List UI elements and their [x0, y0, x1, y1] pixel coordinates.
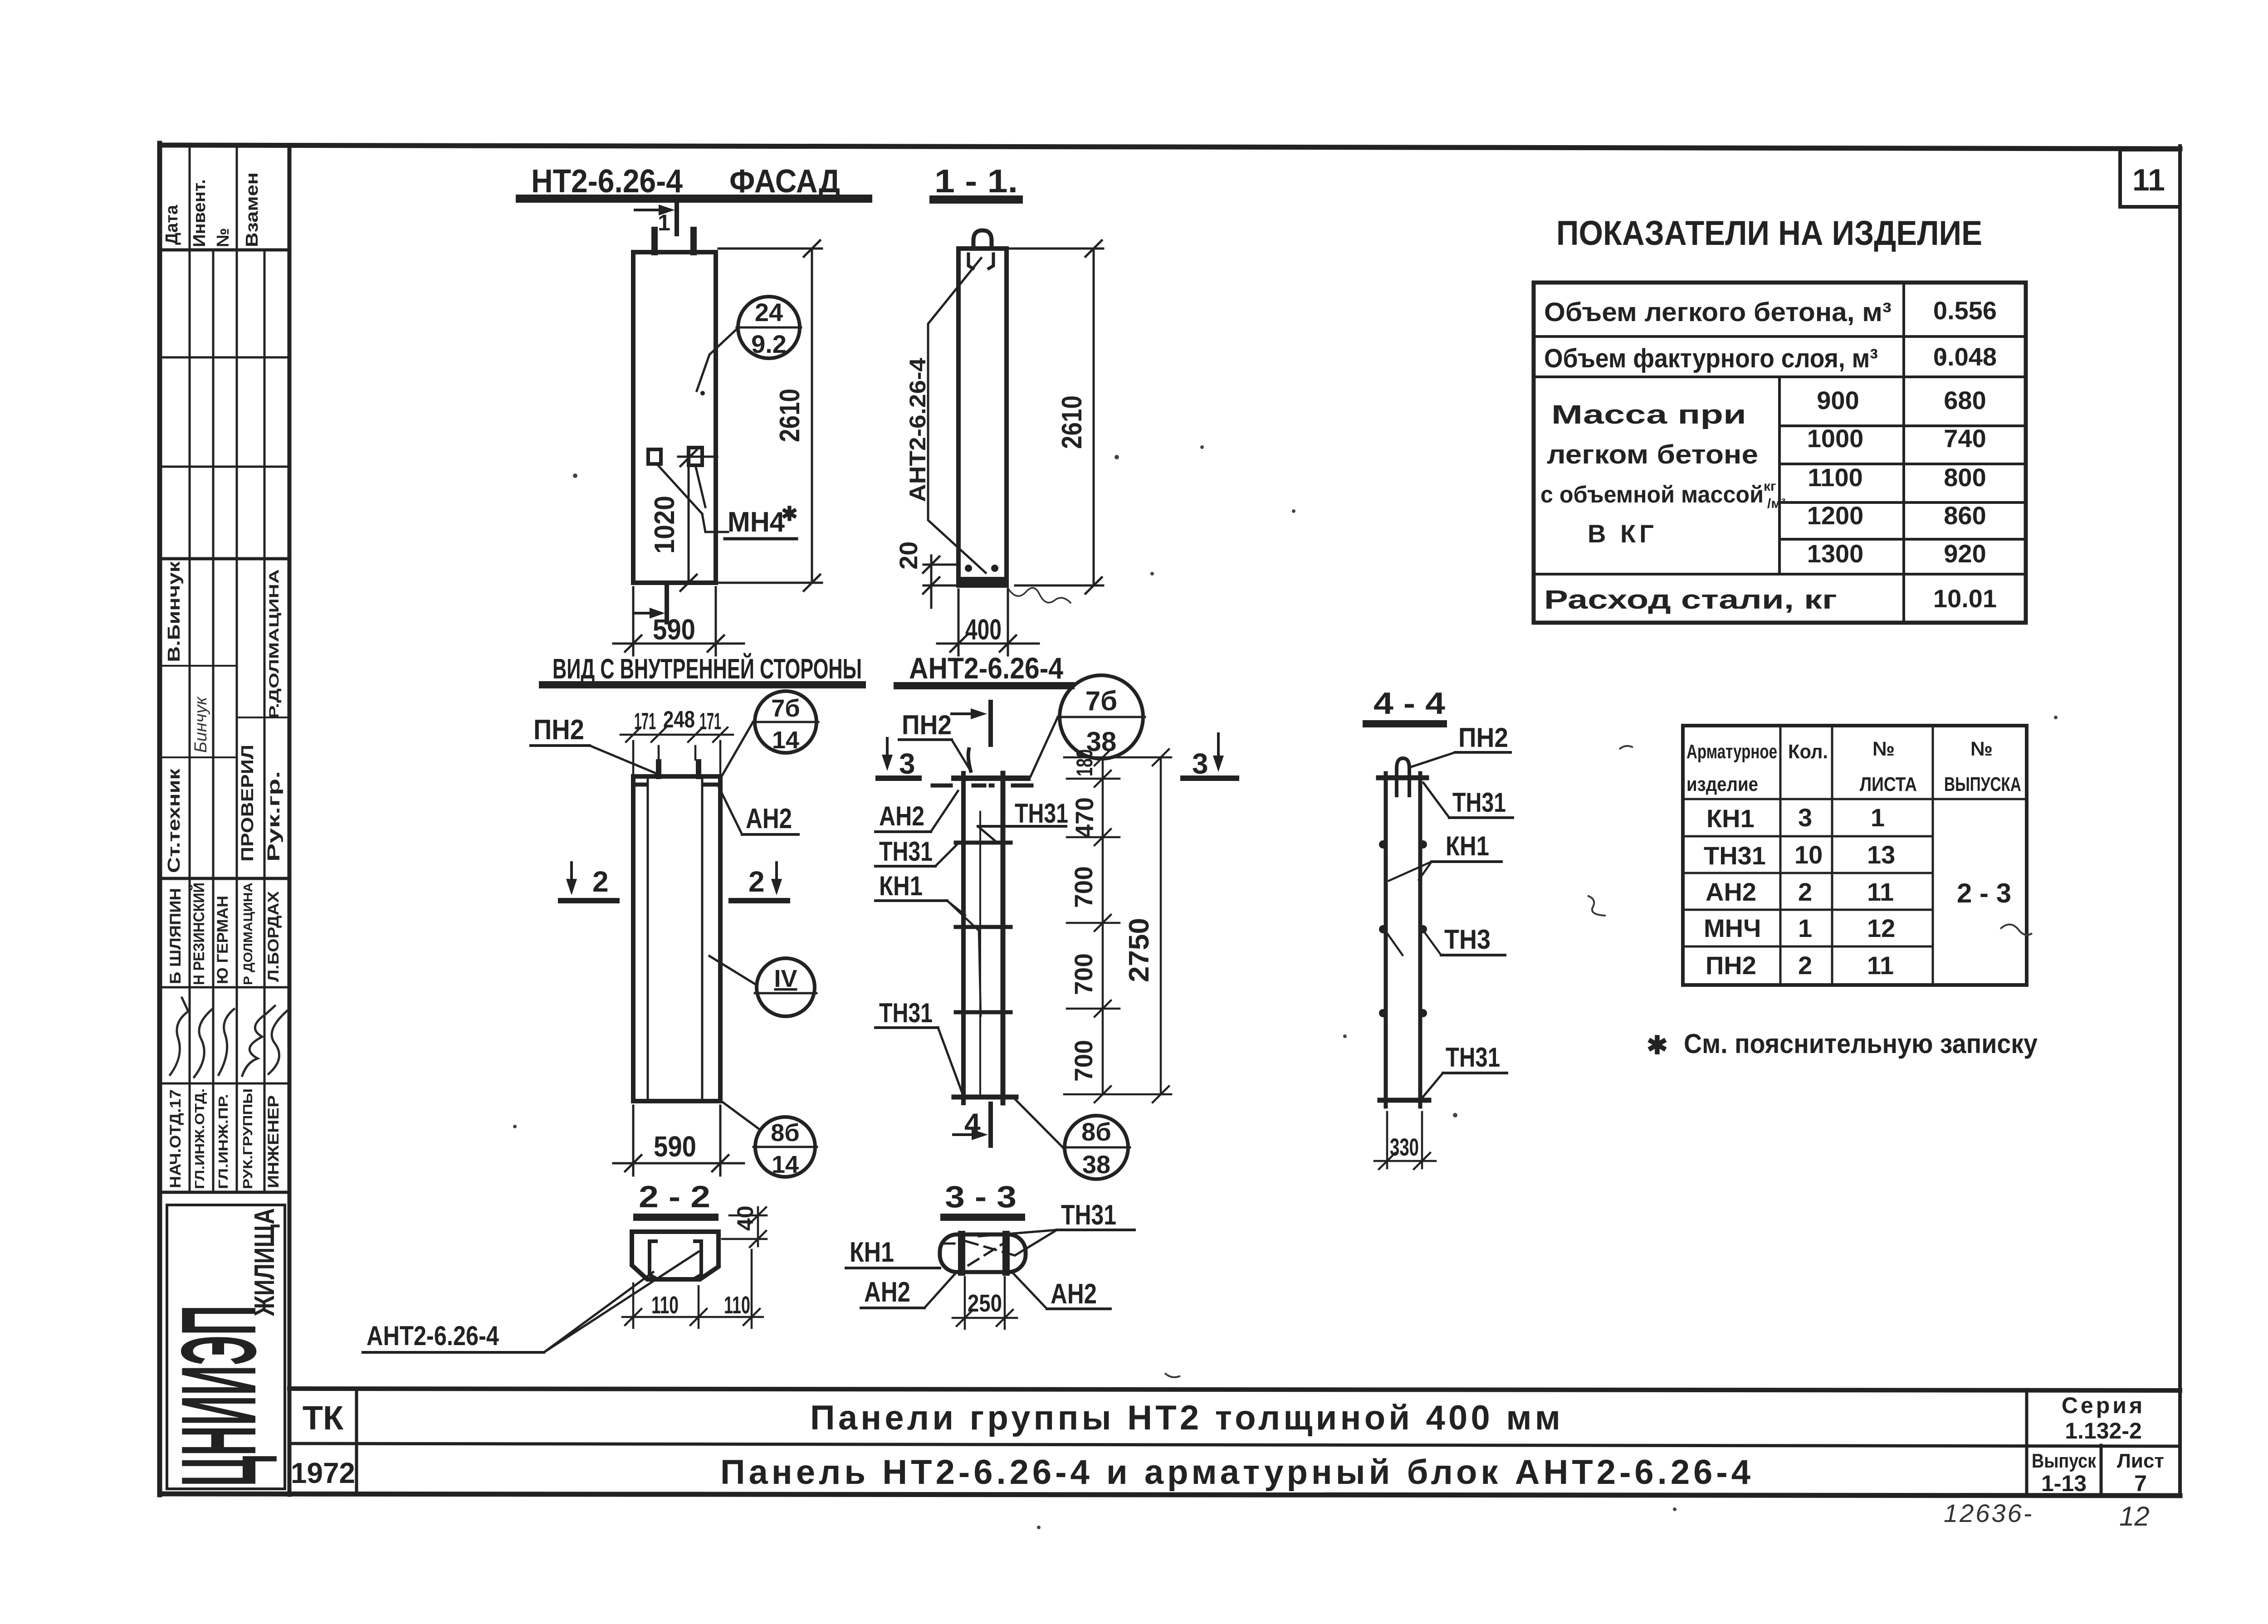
svg-text:РУК.ГРУППЫ: РУК.ГРУППЫ	[241, 1088, 255, 1189]
stamp row: Ст.техник / В.Бинчук signature column	[165, 561, 283, 873]
dim 590 (inner view)	[613, 1106, 744, 1175]
rebar table rows	[1704, 803, 2011, 980]
svg-text:2610: 2610	[774, 389, 806, 442]
loop ПН2 (4-4)	[1397, 758, 1409, 795]
svg-text:1: 1	[658, 210, 670, 235]
svg-text:38: 38	[1082, 1150, 1110, 1179]
section marks 2-2 on inner view	[561, 863, 787, 901]
rebar items table grid	[1683, 726, 2027, 985]
svg-text:1 - 1.: 1 - 1.	[934, 163, 1018, 200]
svg-text:ПН2: ПН2	[902, 710, 952, 740]
marker circle 7б/38	[1060, 675, 1143, 759]
svg-text:№: №	[1970, 738, 1993, 760]
svg-text:КН1: КН1	[850, 1237, 894, 1268]
svg-text:1200: 1200	[1807, 501, 1864, 530]
svg-text:Выпуск: Выпуск	[2032, 1450, 2097, 1472]
dim 400	[937, 590, 1039, 655]
svg-text:Р ДОЛМАЦИНА: Р ДОЛМАЦИНА	[241, 883, 255, 985]
svg-text:14: 14	[772, 1151, 799, 1178]
left title strip grid	[160, 146, 289, 1495]
svg-text:7: 7	[2134, 1471, 2147, 1496]
svg-text:Ст.техник: Ст.техник	[165, 768, 184, 873]
svg-text:2: 2	[1798, 951, 1812, 980]
rebar hooks inside 2-2	[650, 1241, 656, 1278]
svg-text:Масса при: Масса при	[1551, 400, 1746, 429]
dim 330 (4-4)	[1374, 1112, 1436, 1169]
svg-text:2 - 2: 2 - 2	[639, 1180, 710, 1214]
svg-text:/м³: /м³	[1767, 496, 1786, 511]
svg-text:Ю ГЕРМАН: Ю ГЕРМАН	[214, 896, 231, 984]
svg-text:7б: 7б	[1085, 686, 1117, 716]
leaders from МН4 squares	[657, 464, 728, 532]
svg-text:ГЛ.ИНЖ.ПР.: ГЛ.ИНЖ.ПР.	[216, 1094, 231, 1189]
svg-text:248: 248	[663, 707, 695, 733]
svg-text:МНЧ: МНЧ	[1704, 914, 1761, 942]
svg-text:Лист: Лист	[2117, 1450, 2164, 1472]
dim 2610 (right vertical)	[719, 240, 822, 591]
svg-text:3 - 3: 3 - 3	[945, 1180, 1017, 1214]
svg-text:8б: 8б	[1081, 1117, 1111, 1146]
svg-text:400: 400	[965, 613, 1002, 646]
anchor hooks inside top	[968, 254, 973, 268]
marker circle 24 / 9.2	[738, 297, 800, 358]
svg-text:1.132-2: 1.132-2	[2065, 1418, 2142, 1444]
svg-text:2: 2	[592, 865, 609, 898]
svg-text:Взамен: Взамен	[243, 172, 262, 247]
marker circle 7б/14	[755, 691, 816, 753]
svg-text:ТН3: ТН3	[1444, 924, 1491, 955]
svg-text:Дата: Дата	[162, 205, 181, 245]
svg-text:1: 1	[1871, 803, 1885, 832]
svg-text:ТН31: ТН31	[1704, 841, 1766, 870]
svg-text:740: 740	[1944, 424, 1986, 453]
svg-text:680: 680	[1944, 386, 1986, 415]
svg-text:Расход стали, кг: Расход стали, кг	[1544, 585, 1837, 614]
svg-text:ТН31: ТН31	[879, 836, 933, 867]
rebar table header	[1686, 738, 2021, 795]
stamp row: job titles	[167, 1088, 282, 1189]
svg-text:АНТ2-6.26-4: АНТ2-6.26-4	[909, 651, 1063, 685]
sheet outer border frame	[160, 143, 2180, 1496]
dim 20 (bottom left)	[923, 556, 956, 608]
svg-text:№: №	[214, 228, 233, 247]
svg-text:20: 20	[894, 541, 923, 570]
svg-text:10: 10	[1794, 840, 1823, 869]
svg-text:40: 40	[733, 1205, 758, 1231]
dim 1020 (vertical)	[680, 450, 697, 591]
svg-text:920: 920	[1944, 539, 1986, 568]
section 1-1 panel outline	[958, 249, 1007, 585]
svg-text:АН2: АН2	[746, 803, 792, 834]
svg-text:Н РЕЗИНСКИЙ: Н РЕЗИНСКИЙ	[190, 883, 208, 985]
svg-text:11: 11	[2132, 163, 2165, 197]
svg-text:ПН2: ПН2	[1706, 951, 1756, 980]
svg-text:4: 4	[964, 1107, 981, 1140]
svg-text:2: 2	[1798, 878, 1812, 906]
svg-text:ТН31: ТН31	[1446, 1042, 1500, 1073]
indicators table mass rows	[1807, 386, 1986, 568]
organization logo box ЦНИИЭП ЖИЛИЩА	[167, 1205, 285, 1489]
svg-text:АН2: АН2	[1706, 878, 1756, 906]
anchor plates on 3-3	[958, 1231, 965, 1276]
svg-text:ВЫПУСКА: ВЫПУСКА	[1944, 773, 2021, 795]
svg-text:860: 860	[1944, 501, 1986, 530]
svg-text:Панель НТ2-6.26-4 и арматур: Панель НТ2-6.26-4 и арматурный блок АНТ2…	[720, 1453, 1750, 1492]
svg-text:ИНЖЕНЕР: ИНЖЕНЕР	[265, 1095, 282, 1188]
svg-text:180: 180	[1072, 749, 1097, 776]
loop wire into top bar	[968, 749, 971, 771]
svg-text:легком бетоне: легком бетоне	[1547, 440, 1758, 469]
svg-text:ТК: ТК	[303, 1399, 344, 1437]
4-4 frame bars	[1378, 773, 1429, 1107]
svg-text:2: 2	[748, 865, 765, 898]
svg-text:12: 12	[1867, 914, 1895, 942]
stamp row: signatures (scribbles)	[170, 998, 288, 1077]
svg-text:12636-: 12636-	[1944, 1499, 2033, 1527]
svg-text:изделие: изделие	[1686, 773, 1758, 795]
svg-text:ПН2: ПН2	[533, 714, 584, 746]
svg-text:Серия: Серия	[2062, 1393, 2145, 1418]
svg-text:4 - 4: 4 - 4	[1374, 686, 1445, 721]
svg-text:2750: 2750	[1124, 918, 1155, 982]
svg-text:✱: ✱	[781, 503, 798, 525]
svg-text:АН2: АН2	[864, 1277, 910, 1308]
svg-text:10.01: 10.01	[1933, 584, 1997, 613]
anchor dashes at ladder top	[933, 784, 1031, 788]
svg-text:700: 700	[1069, 1040, 1098, 1082]
svg-text:с объемной массой: с объемной массой	[1540, 482, 1764, 508]
svg-text:3: 3	[899, 747, 915, 780]
svg-text:3: 3	[1798, 803, 1812, 832]
svg-text:КН1: КН1	[1446, 831, 1489, 861]
svg-text:ПРОВЕРИЛ: ПРОВЕРИЛ	[238, 745, 257, 862]
section cut mark 4 (top)	[952, 702, 991, 745]
svg-text:ТН31: ТН31	[1061, 1200, 1116, 1231]
svg-text:171: 171	[699, 708, 721, 735]
svg-text:Инвент.: Инвент.	[190, 179, 209, 247]
indicators table grid	[1534, 283, 2026, 623]
svg-text:ПН2: ПН2	[1458, 722, 1508, 753]
svg-text:171: 171	[634, 708, 656, 735]
svg-text:ТН31: ТН31	[1452, 787, 1506, 818]
svg-text:110: 110	[724, 1292, 750, 1319]
svg-text:8б: 8б	[771, 1119, 799, 1146]
svg-text:0.556: 0.556	[1933, 296, 1997, 325]
bracket leader + rotated label АНТ2-6.26-4	[928, 258, 986, 573]
svg-text:900: 900	[1817, 386, 1859, 415]
sheet number box 11	[2120, 150, 2180, 207]
dim 250 (3-3)	[953, 1277, 1017, 1329]
section cut mark 4 (bottom)	[953, 1104, 991, 1146]
svg-text:470: 470	[1070, 797, 1099, 838]
stamp row: names	[167, 883, 282, 985]
strip header: Дата / Инвент № / Взамен	[162, 172, 262, 247]
svg-text:590: 590	[653, 613, 695, 646]
svg-text:590: 590	[654, 1130, 696, 1163]
svg-text:КН1: КН1	[1706, 804, 1755, 833]
svg-text:Панели группы НТ2 толщиной: Панели группы НТ2 толщиной 400 мм	[810, 1399, 1560, 1437]
svg-text:Кол.: Кол.	[1788, 741, 1828, 763]
svg-text:24: 24	[755, 298, 783, 327]
marker circle 8б/38	[1065, 1116, 1128, 1179]
top tabs ПН2	[656, 762, 661, 776]
svg-text:КН1: КН1	[879, 871, 923, 901]
svg-text:Б ШЛЯПИН: Б ШЛЯПИН	[167, 888, 184, 984]
svg-text:7б: 7б	[771, 695, 800, 722]
svg-text:330: 330	[1390, 1134, 1419, 1161]
svg-text:1020: 1020	[649, 496, 680, 554]
facade panel outline	[633, 252, 716, 583]
svg-text:ТН31: ТН31	[879, 998, 933, 1028]
top dims 171 248 171	[621, 727, 733, 773]
svg-text:ТН31: ТН31	[1015, 798, 1068, 829]
marker circle IV	[757, 958, 815, 1016]
svg-text:800: 800	[1944, 463, 1986, 492]
svg-text:11: 11	[1867, 878, 1894, 906]
facing layer band at bottom	[958, 577, 1007, 585]
svg-text:3: 3	[1192, 747, 1208, 780]
svg-text:В КГ: В КГ	[1588, 519, 1657, 548]
title block grid	[289, 1389, 2180, 1496]
svg-text:9.2: 9.2	[751, 330, 787, 358]
svg-text:См. пояснительную записку: См. пояснительную записку	[1684, 1029, 2038, 1059]
break squiggle under section	[1008, 588, 1070, 603]
dim 2750 overall	[1153, 749, 1169, 1102]
scan speckles and stray marks	[513, 356, 2058, 1529]
svg-text:ЖИЛИЩА: ЖИЛИЩА	[249, 1208, 280, 1317]
svg-text:11: 11	[1867, 951, 1894, 980]
svg-text:ЦНИИЭП: ЦНИИЭП	[159, 1305, 278, 1487]
svg-text:АНТ2-6.26-4: АНТ2-6.26-4	[367, 1321, 499, 1351]
svg-text:250: 250	[968, 1290, 1002, 1317]
svg-text:ГЛ.ИНЖ.ОТД.: ГЛ.ИНЖ.ОТД.	[193, 1088, 207, 1189]
svg-text:ПОКАЗАТЕЛИ НА ИЗДЕЛИЕ: ПОКАЗАТЕЛИ НА ИЗДЕЛИЕ	[1556, 214, 1982, 253]
svg-text:1-13: 1-13	[2041, 1471, 2087, 1496]
svg-text:кг: кг	[1764, 479, 1776, 494]
svg-text:МН4: МН4	[728, 507, 785, 538]
svg-text:ФАСАД: ФАСАД	[729, 163, 840, 200]
svg-text:В.Бинчук: В.Бинчук	[165, 561, 184, 662]
svg-text:АНТ2-6.26-4: АНТ2-6.26-4	[905, 358, 930, 502]
armature ladder frame	[954, 773, 1028, 1103]
section 3-3 bar (cylinder)	[940, 1234, 1026, 1272]
svg-text:1972: 1972	[291, 1457, 355, 1489]
svg-text:700: 700	[1069, 866, 1098, 908]
svg-text:Бинчук: Бинчук	[191, 696, 210, 753]
svg-text:НТ2-6.26-4: НТ2-6.26-4	[531, 163, 683, 200]
svg-text:13: 13	[1867, 840, 1895, 869]
corner anchor dashes АН2	[636, 783, 647, 787]
ТН31 dots on bars	[1379, 840, 1427, 1017]
section cut mark 1 (top)	[635, 204, 677, 234]
embedded plates МН4 (two small squares)	[648, 449, 661, 464]
svg-text:700: 700	[1069, 953, 1098, 995]
dims 110 110 (2-2 bottom)	[622, 1250, 763, 1328]
section cut mark 1 (bottom)	[634, 587, 667, 622]
dashed diagonals inside 3-3	[943, 1241, 1021, 1265]
top mounting tabs ПН2	[651, 230, 658, 252]
svg-text:1300: 1300	[1807, 539, 1864, 568]
dim chain 180/470/700/700/700	[1064, 749, 1171, 1102]
svg-text:1000: 1000	[1807, 424, 1864, 453]
svg-text:Объем легкого бетона, м³: Объем легкого бетона, м³	[1544, 297, 1892, 327]
svg-text:2610: 2610	[1056, 395, 1088, 449]
svg-text:1: 1	[1798, 914, 1812, 942]
svg-text:110: 110	[651, 1292, 679, 1319]
svg-text:14: 14	[772, 727, 799, 754]
svg-text:Рук.гр.: Рук.гр.	[264, 771, 283, 862]
svg-text:НАЧ.ОТД.17: НАЧ.ОТД.17	[167, 1089, 184, 1188]
svg-text:✱: ✱	[1647, 1031, 1668, 1059]
svg-text:12: 12	[2119, 1501, 2150, 1531]
svg-text:IV: IV	[774, 965, 797, 992]
svg-text:ВИД С ВНУТРЕННЕЙ СТОРОНЫ: ВИД С ВНУТРЕННЕЙ СТОРОНЫ	[552, 653, 862, 685]
leader from marker circle 24/9.2 to panel	[697, 327, 738, 391]
svg-text:Р.ДОЛМАЦИНА: Р.ДОЛМАЦИНА	[267, 569, 282, 719]
svg-text:2 - 3: 2 - 3	[1957, 878, 2011, 908]
svg-text:1100: 1100	[1808, 463, 1863, 492]
svg-text:ЛИСТА: ЛИСТА	[1860, 773, 1917, 795]
dim 2610 (section)	[1009, 240, 1103, 594]
marker circle 8б/14	[755, 1117, 815, 1177]
inner face lines	[647, 776, 649, 1101]
svg-text:АН2: АН2	[1051, 1278, 1097, 1310]
dim 590 (facade)	[613, 587, 744, 655]
lifting loop on top	[973, 230, 992, 249]
svg-text:№: №	[1872, 738, 1895, 760]
inner-view panel outline	[633, 776, 720, 1101]
svg-text:Арматурное: Арматурное	[1686, 741, 1777, 763]
svg-text:АН2: АН2	[879, 801, 924, 831]
section 2-2 cross-section outline	[632, 1232, 719, 1279]
svg-text:Л.БОРДАХ: Л.БОРДАХ	[265, 891, 282, 982]
svg-text:Объем фактурного слоя, м³: Объем фактурного слоя, м³	[1544, 344, 1878, 373]
dim 40 (2-2 right)	[722, 1207, 767, 1247]
